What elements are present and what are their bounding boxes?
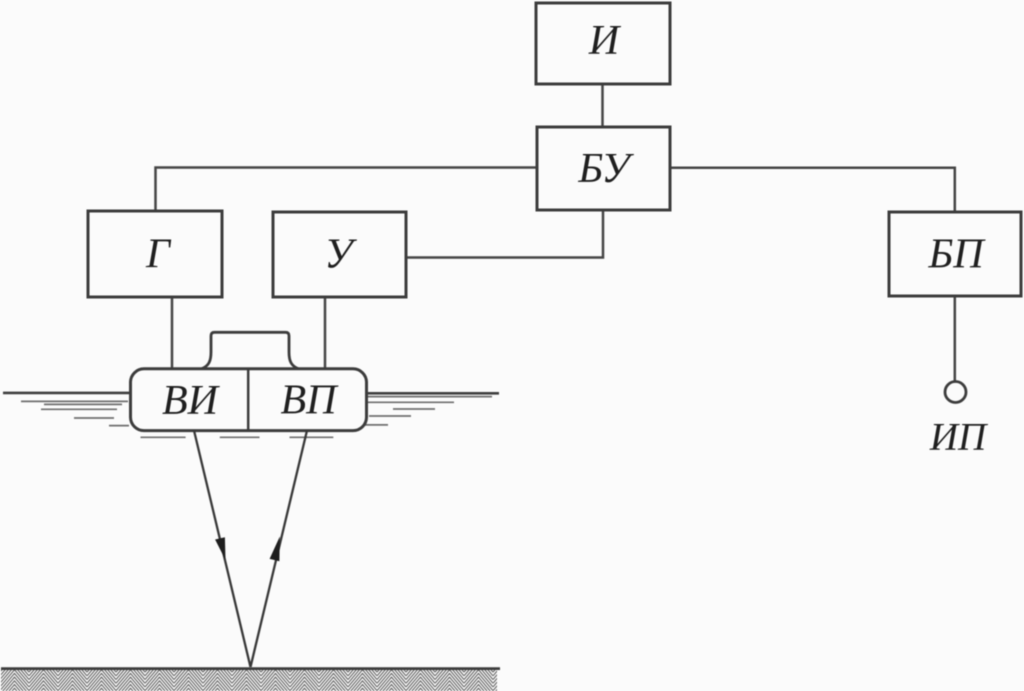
svg-text:ВИ: ВИ [162, 378, 221, 424]
svg-text:Г: Г [145, 232, 172, 278]
svg-text:ВП: ВП [281, 378, 340, 424]
svg-text:ИП: ИП [929, 416, 989, 459]
svg-text:БУ: БУ [577, 146, 634, 192]
svg-text:И: И [588, 18, 622, 64]
svg-text:БП: БП [927, 232, 986, 278]
svg-text:У: У [324, 232, 357, 278]
